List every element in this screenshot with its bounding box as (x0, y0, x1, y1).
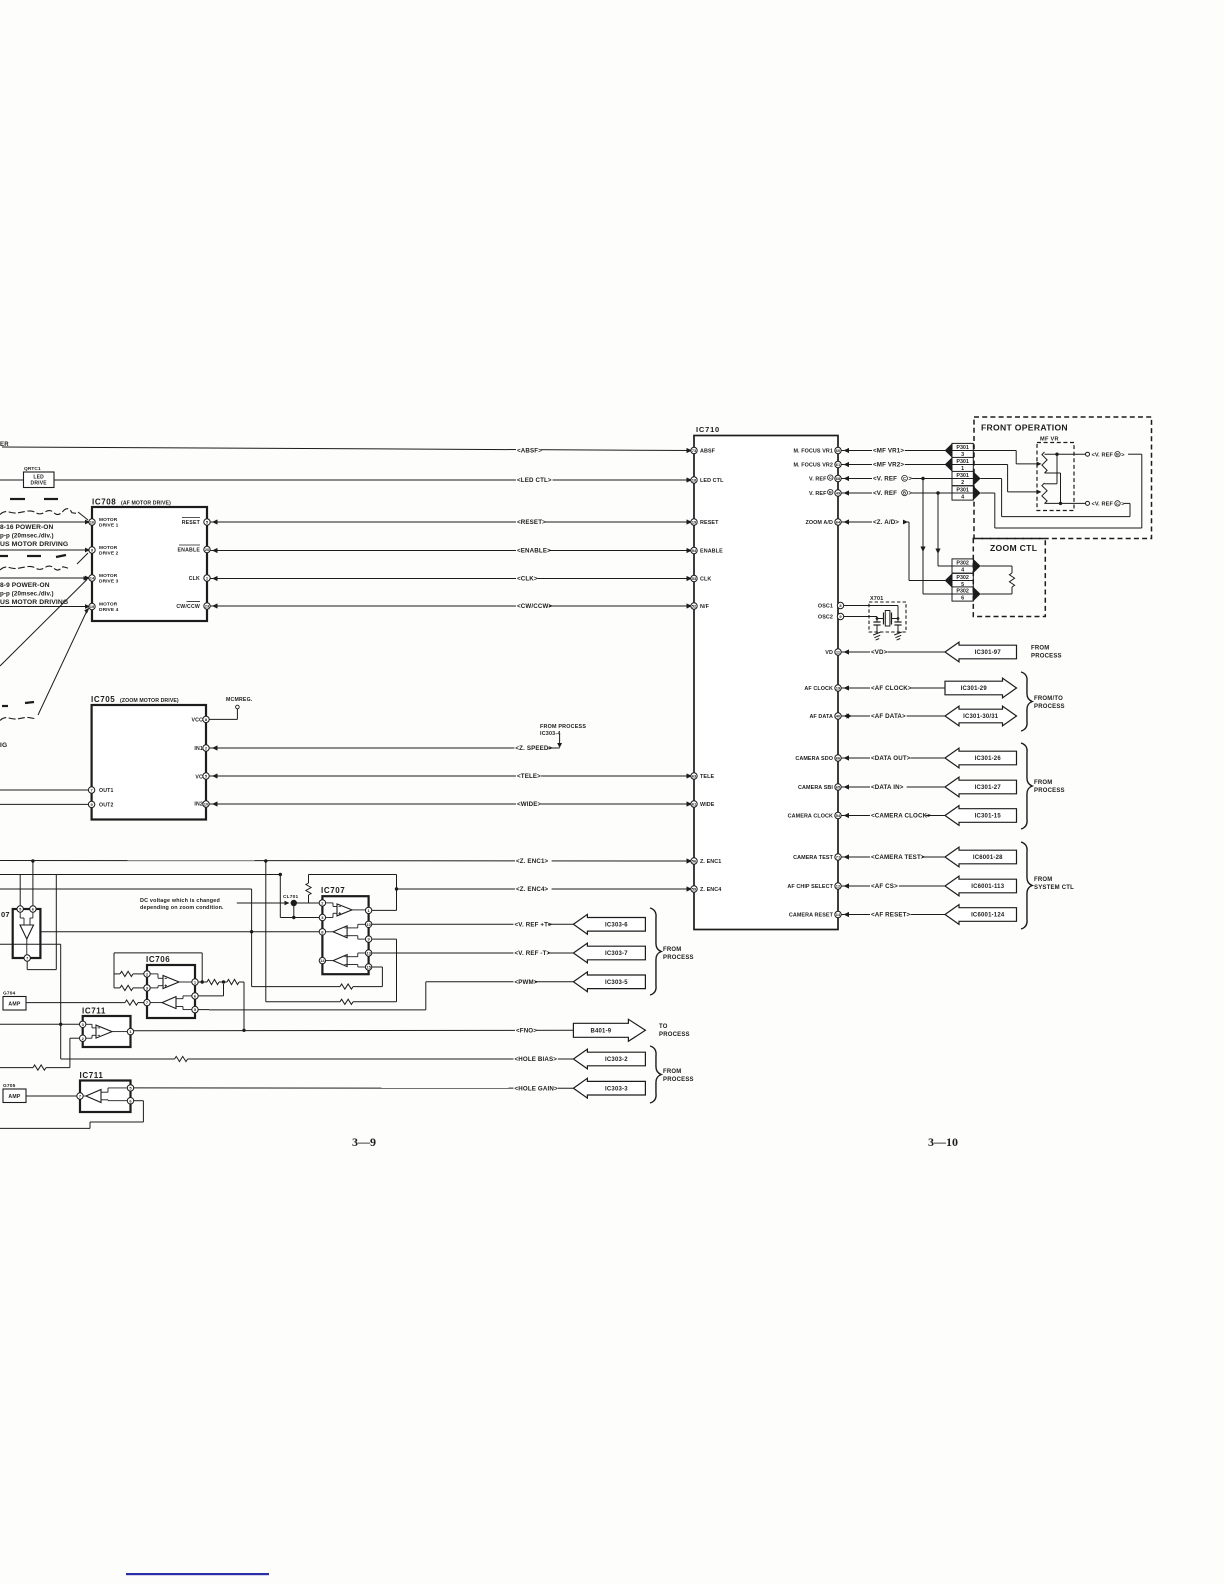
svg-text:<V. REF: <V. REF (1092, 502, 1114, 508)
svg-text:TELE: TELE (700, 774, 714, 780)
svg-text:MOTOR: MOTOR (99, 545, 118, 551)
svg-text:<V. REF +T>: <V. REF +T> (515, 921, 553, 928)
svg-text:<MF VR1>: <MF VR1> (873, 448, 904, 455)
svg-text:60: 60 (836, 448, 841, 453)
svg-text:PROCESS: PROCESS (659, 1032, 690, 1038)
svg-text:IC301-26: IC301-26 (975, 756, 1002, 762)
svg-text:DRIVE 4: DRIVE 4 (99, 607, 119, 613)
svg-text:>: > (908, 490, 912, 497)
svg-text:64: 64 (836, 520, 841, 525)
svg-text:<MF VR2>: <MF VR2> (873, 462, 904, 469)
svg-text:VCC: VCC (191, 718, 203, 724)
svg-text:CAMERA TEST: CAMERA TEST (793, 855, 833, 861)
svg-text:depending on zoom condition.: depending on zoom condition. (140, 905, 224, 911)
svg-text:<AF RESET>: <AF RESET> (871, 912, 911, 919)
svg-text:p-p (20msec./div.): p-p (20msec./div.) (0, 533, 54, 540)
svg-text:<Z. A/D>: <Z. A/D> (873, 519, 899, 526)
svg-text:LED: LED (33, 474, 44, 480)
svg-text:C: C (829, 475, 832, 480)
svg-text:PROCESS: PROCESS (1034, 788, 1065, 794)
svg-text:p-p (20msec./div.): p-p (20msec./div.) (0, 591, 54, 598)
svg-text:73: 73 (692, 448, 697, 453)
svg-text:19: 19 (692, 520, 697, 525)
svg-text:<AF CS>: <AF CS> (871, 883, 898, 890)
svg-text:G704: G704 (3, 991, 16, 997)
svg-text:ABSF: ABSF (700, 449, 716, 455)
svg-text:2: 2 (961, 480, 964, 486)
svg-text:15: 15 (366, 965, 371, 970)
svg-text:63: 63 (692, 774, 697, 779)
svg-text:<CAMERA TEST>: <CAMERA TEST> (871, 854, 925, 861)
svg-text:G705: G705 (3, 1083, 16, 1089)
svg-text:FROM/TO: FROM/TO (1034, 696, 1063, 702)
svg-text:RESET: RESET (182, 520, 201, 526)
svg-text:19: 19 (90, 604, 95, 609)
svg-text:23: 23 (205, 604, 210, 609)
svg-text:IC301-97: IC301-97 (975, 650, 1002, 656)
svg-text:<VD>: <VD> (871, 649, 888, 656)
svg-text:8-9 POWER-ON: 8-9 POWER-ON (0, 582, 50, 589)
svg-text:FROM: FROM (1034, 780, 1052, 786)
svg-text:IC707: IC707 (321, 886, 345, 895)
svg-text:<ABSF>: <ABSF> (517, 447, 542, 454)
svg-text:P302: P302 (956, 575, 969, 581)
svg-text:07: 07 (1, 910, 10, 919)
svg-text:IC705: IC705 (91, 695, 115, 704)
svg-text:VC: VC (195, 774, 203, 780)
svg-text:3—9: 3—9 (352, 1135, 376, 1149)
svg-text:IC708: IC708 (92, 498, 116, 507)
svg-text:MCMREG.: MCMREG. (226, 697, 253, 703)
svg-text:<CLK>: <CLK> (517, 576, 538, 583)
svg-text:IC6001-113: IC6001-113 (971, 884, 1004, 890)
svg-text:PROCESS: PROCESS (1034, 704, 1065, 710)
svg-text:4: 4 (961, 568, 964, 574)
svg-text:AMP: AMP (8, 1002, 20, 1008)
svg-text:OSC2: OSC2 (818, 615, 833, 621)
svg-text:12: 12 (836, 884, 841, 889)
svg-text:IC710: IC710 (696, 425, 720, 434)
svg-text:IC6001-28: IC6001-28 (973, 855, 1003, 861)
svg-text:AF CHIP SELECT: AF CHIP SELECT (787, 884, 833, 890)
svg-text:FROM: FROM (663, 947, 681, 953)
svg-text:RESET: RESET (700, 520, 719, 526)
svg-text:C: C (903, 476, 906, 481)
svg-text:IC711: IC711 (82, 1007, 106, 1016)
svg-text:CAMERA CLOCK: CAMERA CLOCK (788, 814, 833, 820)
svg-text:<HOLE GAIN>: <HOLE GAIN> (515, 1085, 558, 1092)
svg-text:53: 53 (692, 576, 697, 581)
svg-text:59: 59 (692, 887, 697, 892)
svg-text:<CW/CCW>: <CW/CCW> (517, 603, 552, 610)
svg-text:<FNO>: <FNO> (516, 1027, 537, 1034)
svg-text:FROM: FROM (1031, 646, 1049, 652)
svg-text:OUT1: OUT1 (99, 788, 114, 794)
svg-text:14: 14 (90, 576, 95, 581)
svg-text:54: 54 (692, 548, 697, 553)
svg-text:56: 56 (692, 859, 697, 864)
svg-text:IN1: IN1 (194, 746, 203, 752)
svg-text:IC303-7: IC303-7 (605, 951, 628, 957)
svg-text:10: 10 (366, 922, 371, 927)
svg-text:V. REF: V. REF (809, 477, 827, 483)
svg-text:4: 4 (961, 495, 964, 501)
svg-text:CL701: CL701 (283, 894, 299, 900)
svg-text:B: B (1116, 452, 1119, 457)
svg-text:IN2: IN2 (194, 802, 203, 808)
svg-text:P301: P301 (956, 487, 969, 493)
svg-text:CLK: CLK (189, 576, 200, 582)
svg-text:FROM: FROM (663, 1069, 681, 1075)
svg-text:3—10: 3—10 (928, 1135, 958, 1149)
svg-text:IC711: IC711 (80, 1071, 104, 1080)
svg-text:<Z. ENC1>: <Z. ENC1> (516, 858, 549, 865)
svg-text:V. REF: V. REF (809, 491, 827, 497)
svg-text:DRIVE 3: DRIVE 3 (99, 579, 119, 585)
svg-text:US MOTOR DRIVING: US MOTOR DRIVING (0, 599, 68, 606)
svg-text:6: 6 (961, 596, 964, 602)
svg-text:IC6001-124: IC6001-124 (971, 913, 1005, 919)
svg-text:52: 52 (692, 604, 697, 609)
svg-text:WIDE: WIDE (700, 802, 715, 808)
svg-text:Z. ENC4: Z. ENC4 (700, 887, 721, 893)
svg-text:CAMERA SBI: CAMERA SBI (798, 785, 833, 791)
svg-text:ENABLE: ENABLE (700, 549, 723, 555)
svg-text:<PWM>: <PWM> (515, 979, 538, 986)
svg-text:10: 10 (204, 802, 209, 807)
svg-text:P301: P301 (956, 459, 969, 465)
svg-text:20: 20 (205, 547, 210, 552)
svg-text:CLK: CLK (700, 577, 711, 583)
svg-text:<CAMERA CLOCK>: <CAMERA CLOCK> (871, 813, 931, 820)
svg-text:MOTOR: MOTOR (99, 573, 118, 579)
svg-text:B: B (903, 490, 906, 495)
svg-text:13: 13 (366, 951, 371, 956)
svg-text:8-16 POWER-ON: 8-16 POWER-ON (0, 524, 53, 531)
svg-text:<WIDE>: <WIDE> (517, 801, 542, 808)
svg-text:CAMERA RESET: CAMERA RESET (789, 913, 834, 919)
svg-text:M. FOCUS VR1: M. FOCUS VR1 (793, 449, 833, 455)
svg-text:DRIVE 1: DRIVE 1 (99, 523, 119, 529)
svg-text:PROCESS: PROCESS (663, 955, 694, 961)
svg-text:CAMERA SDO: CAMERA SDO (795, 756, 833, 762)
svg-text:P302: P302 (956, 588, 969, 594)
svg-text:FROM PROCESS: FROM PROCESS (540, 724, 586, 730)
svg-text:DRIVE 2: DRIVE 2 (99, 551, 119, 557)
svg-text:FROM: FROM (1034, 877, 1052, 883)
svg-text:QRTC1: QRTC1 (24, 466, 41, 472)
svg-text:14: 14 (320, 958, 325, 963)
svg-text:MOTOR: MOTOR (99, 602, 118, 608)
svg-text:AMP: AMP (8, 1094, 20, 1100)
svg-text:DRIVE: DRIVE (31, 481, 48, 487)
svg-text:61: 61 (692, 802, 697, 807)
svg-text:B401-9: B401-9 (590, 1029, 611, 1035)
svg-text:ZOOM A/D: ZOOM A/D (805, 520, 833, 526)
svg-text:<ENABLE>: <ENABLE> (517, 548, 551, 555)
svg-text:<Z. ENC4>: <Z. ENC4> (516, 886, 549, 893)
svg-text:IC301-29: IC301-29 (961, 686, 988, 692)
svg-text:US MOTOR DRIVING: US MOTOR DRIVING (0, 541, 68, 548)
svg-text:16: 16 (90, 520, 95, 525)
svg-text:AF CLOCK: AF CLOCK (804, 686, 833, 692)
svg-text:14: 14 (836, 912, 841, 917)
svg-text:IC301-30/31: IC301-30/31 (963, 714, 999, 720)
svg-text:49: 49 (836, 491, 841, 496)
svg-text:<DATA IN>: <DATA IN> (871, 784, 904, 791)
svg-text:<HOLE BIAS>: <HOLE BIAS> (515, 1056, 558, 1063)
svg-text:VD: VD (825, 650, 833, 656)
svg-text:<V. REF: <V. REF (1092, 452, 1114, 458)
svg-text:IG: IG (0, 742, 7, 749)
svg-text:OSC1: OSC1 (818, 604, 833, 610)
svg-text:B: B (829, 490, 832, 495)
svg-text:<RESET>: <RESET> (517, 519, 546, 526)
svg-text:Z. ENC1: Z. ENC1 (700, 859, 721, 865)
svg-text:PROCESS: PROCESS (1031, 654, 1062, 660)
svg-text:IC303-4: IC303-4 (540, 731, 561, 737)
svg-text:CW/CCW: CW/CCW (176, 604, 200, 610)
svg-text:IC303-5: IC303-5 (605, 980, 628, 986)
svg-text:ER: ER (0, 442, 9, 448)
svg-text:LED CTL: LED CTL (700, 478, 724, 484)
svg-text:61: 61 (836, 462, 841, 467)
svg-text:<DATA OUT>: <DATA OUT> (871, 755, 911, 762)
svg-text:<V. REF: <V. REF (873, 490, 897, 497)
svg-text:<AF DATA>: <AF DATA> (871, 713, 906, 720)
svg-text:71: 71 (836, 855, 841, 860)
svg-text:M. FOCUS VR2: M. FOCUS VR2 (793, 463, 833, 469)
svg-text:ENABLE: ENABLE (177, 548, 200, 554)
svg-text:IC301-27: IC301-27 (975, 785, 1002, 791)
svg-text:DC voltage which is changed: DC voltage which is changed (140, 898, 220, 904)
svg-text:66: 66 (836, 756, 841, 761)
svg-text:ZOOM CTL: ZOOM CTL (990, 543, 1037, 553)
svg-text:P301: P301 (956, 473, 969, 479)
svg-text:MOTOR: MOTOR (99, 517, 118, 523)
svg-text:<V. REF -T>: <V. REF -T> (515, 950, 551, 957)
svg-text:54: 54 (836, 813, 841, 818)
svg-text:FRONT OPERATION: FRONT OPERATION (981, 423, 1068, 433)
svg-text:SYSTEM CTL: SYSTEM CTL (1034, 885, 1074, 891)
svg-text:<AF CLOCK>: <AF CLOCK> (871, 685, 912, 692)
svg-text:PROCESS: PROCESS (663, 1077, 694, 1083)
svg-text:18: 18 (692, 478, 697, 483)
svg-text:40: 40 (836, 714, 841, 719)
svg-text:<TELE>: <TELE> (517, 773, 541, 780)
svg-text:X701: X701 (870, 596, 883, 602)
svg-text:AF DATA: AF DATA (809, 714, 833, 720)
svg-text:<Z. SPEED>: <Z. SPEED> (515, 745, 552, 752)
svg-text:C: C (1116, 501, 1119, 506)
svg-text:(AF MOTOR DRIVE): (AF MOTOR DRIVE) (121, 501, 171, 507)
svg-text:N/F: N/F (700, 604, 710, 610)
svg-text:19: 19 (836, 686, 841, 691)
svg-text:65: 65 (836, 785, 841, 790)
svg-text:TO: TO (659, 1024, 668, 1030)
svg-text:(ZOOM MOTOR DRIVE): (ZOOM MOTOR DRIVE) (120, 698, 179, 704)
svg-text:IC706: IC706 (146, 955, 170, 964)
svg-text:IC303-3: IC303-3 (605, 1086, 628, 1092)
svg-text:68: 68 (836, 476, 841, 481)
svg-text:IC303-2: IC303-2 (605, 1057, 628, 1063)
svg-text:>: > (908, 476, 912, 483)
svg-text:IC301-15: IC301-15 (975, 814, 1002, 820)
svg-text:P301: P301 (956, 445, 969, 451)
svg-text:<V. REF: <V. REF (873, 476, 897, 483)
svg-text:P302: P302 (956, 560, 969, 566)
svg-text:MF VR: MF VR (1040, 437, 1059, 443)
svg-text:<LED CTL>: <LED CTL> (517, 477, 552, 484)
svg-text:OUT2: OUT2 (99, 803, 114, 809)
svg-text:IC303-6: IC303-6 (605, 923, 628, 929)
